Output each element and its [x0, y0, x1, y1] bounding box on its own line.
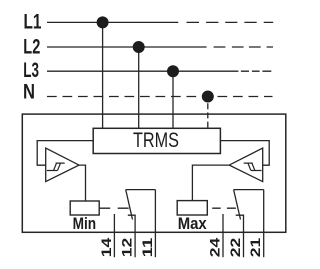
- svg-text:TRMS: TRMS: [133, 129, 179, 152]
- svg-text:L2: L2: [23, 33, 40, 58]
- svg-text:11: 11: [140, 237, 155, 257]
- svg-text:Max: Max: [178, 214, 208, 233]
- svg-text:14: 14: [99, 237, 114, 257]
- svg-text:21: 21: [248, 237, 263, 257]
- svg-text:Min: Min: [73, 214, 97, 233]
- svg-text:24: 24: [208, 237, 223, 257]
- svg-text:22: 22: [228, 237, 243, 257]
- svg-text:N: N: [23, 78, 35, 103]
- svg-text:12: 12: [120, 237, 135, 257]
- svg-text:L1: L1: [24, 9, 42, 34]
